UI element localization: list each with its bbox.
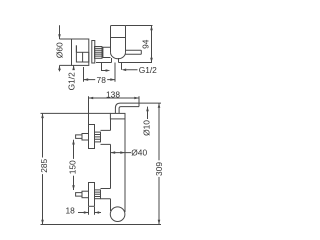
svg-text:285: 285: [39, 158, 49, 172]
svg-text:Ø60: Ø60: [54, 42, 64, 58]
svg-text:18: 18: [65, 205, 75, 215]
svg-text:150: 150: [67, 160, 77, 174]
svg-text:94: 94: [140, 39, 150, 49]
svg-text:G1/2: G1/2: [66, 72, 76, 90]
svg-text:G1/2: G1/2: [139, 65, 157, 75]
svg-text:Ø10: Ø10: [141, 120, 151, 136]
svg-text:138: 138: [106, 90, 120, 100]
svg-text:309: 309: [154, 162, 164, 176]
svg-text:Ø40: Ø40: [131, 147, 147, 157]
svg-text:78: 78: [97, 75, 107, 85]
